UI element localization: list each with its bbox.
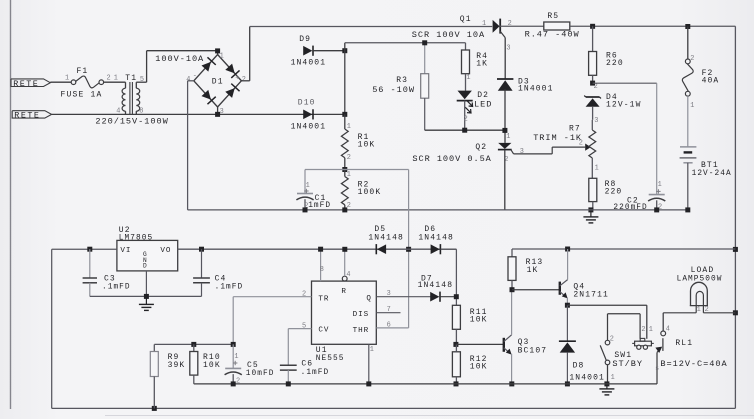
junction D2 bottom bbox=[462, 128, 467, 133]
svg-text:.1mFD: .1mFD bbox=[215, 284, 244, 292]
junction node A bbox=[342, 48, 347, 53]
fuse F2 bbox=[682, 27, 719, 147]
junction R10 top bbox=[191, 342, 196, 347]
svg-text:12V-1W: 12V-1W bbox=[606, 101, 642, 110]
resistor R11 bbox=[452, 305, 487, 344]
svg-text:1: 1 bbox=[370, 346, 374, 354]
wire rail corner down bbox=[441, 249, 457, 305]
junction F2 top bbox=[685, 24, 690, 29]
junction right lamp bbox=[733, 310, 738, 315]
svg-text:10K: 10K bbox=[203, 361, 221, 370]
svg-text:1: 1 bbox=[611, 374, 615, 382]
wire D1-2 riser bbox=[241, 27, 249, 81]
svg-text:2: 2 bbox=[641, 326, 645, 334]
wire R11 to Q3 base bbox=[456, 343, 504, 345]
svg-text:1: 1 bbox=[506, 133, 510, 141]
wire 555 pin4 bbox=[342, 247, 350, 281]
svg-text:RETE: RETE bbox=[14, 111, 40, 121]
svg-text:1mFD: 1mFD bbox=[308, 202, 331, 210]
fuse F1 bbox=[61, 67, 104, 100]
svg-text:4: 4 bbox=[346, 271, 350, 279]
wire gnd row bbox=[90, 295, 202, 297]
junction D7 cathode bbox=[454, 294, 459, 299]
junction C5 bottom bbox=[231, 381, 236, 386]
capacitor C5 bbox=[225, 344, 275, 385]
junction Q2 anode bbox=[502, 128, 507, 133]
svg-text:SCR 100V 10A: SCR 100V 10A bbox=[412, 30, 485, 40]
svg-text:7: 7 bbox=[387, 306, 391, 314]
junction C1 bottom bbox=[303, 207, 308, 212]
resistor R5 bbox=[525, 12, 580, 39]
regulator U2 LM7805 bbox=[117, 226, 178, 271]
junction 555 pin1 bottom bbox=[366, 381, 371, 386]
svg-text:VI: VI bbox=[120, 247, 131, 255]
svg-text:10K: 10K bbox=[470, 363, 488, 372]
svg-text:D10: D10 bbox=[298, 98, 316, 107]
svg-text:3: 3 bbox=[387, 290, 391, 298]
resistor R4 bbox=[462, 43, 489, 91]
svg-text:1K: 1K bbox=[476, 60, 488, 69]
svg-text:CV: CV bbox=[318, 326, 329, 334]
svg-text:2N1711: 2N1711 bbox=[573, 290, 609, 299]
svg-text:1: 1 bbox=[65, 75, 69, 83]
svg-text:2: 2 bbox=[242, 76, 246, 84]
resistor R8 bbox=[589, 178, 623, 210]
svg-text:40A: 40A bbox=[702, 77, 720, 86]
svg-text:C5: C5 bbox=[247, 361, 259, 370]
svg-text:LM7805: LM7805 bbox=[119, 235, 153, 243]
svg-text:C4: C4 bbox=[215, 274, 227, 283]
svg-text:2: 2 bbox=[579, 140, 583, 148]
resistor R6 bbox=[589, 26, 624, 91]
svg-text:1: 1 bbox=[220, 53, 224, 61]
junction Q4 emitter bbox=[565, 303, 570, 308]
svg-text:6: 6 bbox=[387, 321, 391, 329]
svg-text:1: 1 bbox=[697, 306, 701, 314]
capacitor C6 bbox=[280, 360, 329, 384]
svg-text:10mFD: 10mFD bbox=[246, 370, 275, 378]
svg-text:1K: 1K bbox=[527, 266, 539, 275]
svg-text:LOAD: LOAD bbox=[691, 266, 715, 275]
LED D2 bbox=[457, 91, 493, 131]
resistor R10 bbox=[190, 344, 221, 384]
wire 555 pin3 Q bbox=[376, 290, 432, 298]
svg-text:2: 2 bbox=[302, 290, 306, 298]
label 100V-10A bbox=[155, 54, 204, 64]
svg-text:ST/BY: ST/BY bbox=[612, 359, 643, 369]
svg-text:+: + bbox=[235, 74, 239, 82]
junction R2 bottom bbox=[342, 207, 347, 212]
junction R6 bottom bbox=[590, 81, 595, 86]
svg-text:B=12V-C=40A: B=12V-C=40A bbox=[660, 359, 727, 369]
timer U1 NE555 bbox=[312, 281, 377, 363]
svg-text:R5: R5 bbox=[547, 12, 559, 21]
wire node A riser bbox=[345, 43, 466, 51]
svg-text:1N4148: 1N4148 bbox=[368, 234, 404, 243]
svg-text:1: 1 bbox=[347, 171, 351, 179]
svg-text:NE555: NE555 bbox=[316, 355, 345, 363]
svg-text:5: 5 bbox=[302, 322, 306, 330]
svg-text:Q1: Q1 bbox=[460, 15, 472, 24]
svg-text:100K: 100K bbox=[358, 188, 382, 197]
bridge rectifier D1 bbox=[186, 51, 246, 116]
svg-text:BC107: BC107 bbox=[518, 346, 548, 355]
svg-text:RETE: RETE bbox=[13, 79, 39, 89]
svg-text:1N4001: 1N4001 bbox=[291, 122, 327, 131]
svg-text:C3: C3 bbox=[104, 274, 116, 283]
transistor Q3 BC107 bbox=[504, 290, 547, 384]
svg-text:8: 8 bbox=[139, 108, 143, 116]
junction BT1 bottom bbox=[685, 207, 690, 212]
svg-text:5: 5 bbox=[655, 365, 659, 372]
svg-text:-: - bbox=[193, 72, 197, 80]
SCR Q2 bbox=[475, 143, 524, 210]
svg-text:56 -10W: 56 -10W bbox=[372, 85, 415, 95]
svg-text:4: 4 bbox=[186, 76, 190, 84]
label T1 value bbox=[95, 117, 168, 127]
wire VO rail bbox=[178, 248, 457, 250]
wire D1-4 down bbox=[188, 81, 194, 210]
svg-text:220/15V-100W: 220/15V-100W bbox=[95, 117, 168, 127]
svg-text:Q2: Q2 bbox=[475, 143, 487, 152]
svg-text:3: 3 bbox=[506, 44, 510, 52]
svg-text:D1: D1 bbox=[212, 77, 224, 86]
svg-text:1: 1 bbox=[234, 353, 238, 361]
ground below R8 bbox=[583, 210, 598, 223]
junction C4 top bbox=[199, 247, 204, 252]
junction R6 top bbox=[590, 24, 595, 29]
diode D5 bbox=[368, 225, 404, 254]
svg-text:U1: U1 bbox=[316, 346, 328, 355]
junction R9 bottom bbox=[152, 406, 157, 411]
SCR Q1 bbox=[460, 15, 512, 52]
svg-text:TRIM -1K: TRIM -1K bbox=[533, 133, 582, 143]
junction bridge pin3 bbox=[215, 112, 220, 117]
wire VI left bbox=[52, 248, 117, 250]
svg-text:T1: T1 bbox=[125, 74, 137, 83]
junction R8 bottom bbox=[588, 207, 593, 212]
diode D7 bbox=[418, 274, 454, 301]
connector RETE (line) top bbox=[11, 79, 50, 89]
resistor R2 bbox=[341, 170, 381, 211]
junction R12 bottom bbox=[454, 381, 459, 386]
wire 555 pin8 bbox=[318, 247, 324, 281]
resistor R3 bbox=[372, 43, 429, 130]
wire bottom return bbox=[52, 407, 736, 409]
svg-text:1: 1 bbox=[466, 74, 470, 82]
transformer T1 bbox=[116, 74, 146, 115]
wire y50.7 to bridge bbox=[147, 50, 218, 52]
svg-text:R: R bbox=[341, 288, 347, 296]
svg-text:4: 4 bbox=[666, 326, 670, 334]
svg-text:220: 220 bbox=[605, 188, 623, 197]
wire THR riser bbox=[408, 170, 410, 328]
svg-text:1N4148: 1N4148 bbox=[418, 281, 454, 290]
diode D6 bbox=[418, 225, 454, 254]
wire D7 to R11 bbox=[440, 296, 456, 298]
svg-text:R3: R3 bbox=[396, 76, 408, 85]
relay contact RL1 bbox=[655, 313, 727, 384]
wire fuse to T1 bbox=[104, 75, 126, 83]
capacitor C2 bbox=[613, 181, 665, 212]
svg-text:1: 1 bbox=[595, 164, 599, 172]
svg-text:3: 3 bbox=[594, 117, 598, 125]
svg-text:1: 1 bbox=[690, 102, 694, 110]
svg-text:5: 5 bbox=[140, 76, 144, 84]
svg-text:.1mFD: .1mFD bbox=[301, 369, 330, 377]
label Q2 pin1 bbox=[506, 133, 510, 141]
svg-text:THR: THR bbox=[353, 327, 370, 335]
svg-text:1N4001: 1N4001 bbox=[569, 374, 605, 383]
junction SW1 bottom bbox=[604, 381, 609, 386]
wire lamp pin1 bbox=[663, 306, 696, 313]
svg-text:10K: 10K bbox=[358, 140, 376, 149]
border left edge line bbox=[10, 0, 12, 409]
relay coil RL1 bbox=[632, 326, 654, 349]
svg-text:2: 2 bbox=[347, 202, 351, 210]
wire T1-5 riser bbox=[146, 51, 148, 82]
capacitor C4 bbox=[193, 249, 243, 296]
svg-text:100V-10A: 100V-10A bbox=[155, 54, 204, 64]
svg-text:2: 2 bbox=[236, 377, 240, 385]
wire RETE2 rail y114 bbox=[52, 113, 345, 115]
svg-text:1N4001: 1N4001 bbox=[291, 59, 327, 68]
diode D10 bbox=[291, 98, 327, 131]
junction R11 bottom bbox=[453, 342, 458, 347]
wire lamp pin2 bbox=[703, 306, 735, 313]
svg-text:C6: C6 bbox=[301, 360, 313, 369]
wire RETE1 to fuse bbox=[50, 81, 71, 83]
svg-text:1: 1 bbox=[482, 20, 486, 28]
switch SW1 bbox=[600, 335, 643, 384]
wire top rail bbox=[250, 26, 493, 28]
ground below SW1 bbox=[599, 384, 614, 395]
junction Q4 collector bbox=[565, 247, 570, 252]
battery BT1 bbox=[680, 147, 732, 210]
wire Q4e to coil bbox=[567, 305, 646, 339]
label SCR 100V 10A bbox=[412, 30, 485, 40]
wire node A down to R1 bbox=[344, 51, 346, 115]
wire batt+ rail bbox=[512, 248, 735, 250]
resistor R1 bbox=[341, 114, 375, 169]
wire 555 pin2 TR bbox=[233, 290, 311, 344]
svg-text:3: 3 bbox=[220, 108, 224, 116]
transistor Q4 2N1711 bbox=[560, 249, 609, 305]
svg-text:2: 2 bbox=[464, 115, 468, 123]
wire 555 pin5 CV bbox=[288, 322, 311, 365]
svg-text:8: 8 bbox=[320, 266, 324, 274]
diode D8 bbox=[559, 305, 605, 384]
svg-text:2: 2 bbox=[107, 75, 111, 83]
wire D3 to Q2 bbox=[504, 90, 506, 143]
wire R13 to Q4 base bbox=[512, 289, 560, 291]
svg-text:39K: 39K bbox=[168, 361, 186, 370]
junction R13 bottom bbox=[510, 287, 515, 292]
svg-text:2: 2 bbox=[610, 335, 614, 343]
wire 555 pin1 bbox=[369, 344, 374, 384]
diode D3 bbox=[497, 77, 554, 93]
wire Q2 gate bbox=[511, 147, 585, 154]
wire coil pin2 to SW1 bbox=[608, 314, 641, 341]
diode D9 bbox=[291, 35, 327, 68]
capacitor C3 bbox=[83, 249, 131, 296]
svg-text:3: 3 bbox=[520, 148, 524, 156]
junction R1 top bbox=[342, 112, 347, 117]
wire 555 pin6 THR bbox=[376, 321, 408, 329]
lamp LOAD bbox=[677, 266, 723, 314]
trimmer R7 bbox=[533, 117, 599, 179]
junction R3 top bbox=[422, 40, 427, 45]
wire R3/D2 row y130 bbox=[425, 129, 505, 131]
svg-text:Q: Q bbox=[366, 295, 372, 303]
wire Q1 anode gap bbox=[500, 25, 544, 27]
svg-text:D9: D9 bbox=[299, 35, 311, 44]
svg-text:4: 4 bbox=[116, 108, 120, 116]
svg-text:D: D bbox=[143, 263, 147, 270]
resistor R12 bbox=[452, 344, 487, 384]
svg-text:220mFD: 220mFD bbox=[613, 204, 647, 212]
junction C3 top bbox=[87, 247, 92, 252]
svg-text:1N4148: 1N4148 bbox=[418, 234, 454, 243]
label SCR 100V 0.5A bbox=[412, 154, 491, 164]
svg-text:D8: D8 bbox=[573, 361, 585, 370]
svg-text:10K: 10K bbox=[470, 316, 488, 325]
junction R1-R2 bbox=[342, 167, 347, 172]
svg-text:.1mFD: .1mFD bbox=[102, 284, 131, 292]
resistor R13 bbox=[508, 249, 543, 290]
svg-text:VO: VO bbox=[160, 247, 171, 255]
junction C6 bottom bbox=[286, 381, 291, 386]
wire rail y384 bbox=[194, 383, 657, 385]
junction right batt+ bbox=[733, 247, 738, 252]
svg-text:LED: LED bbox=[474, 100, 492, 110]
wire D9 to junction bbox=[313, 50, 345, 52]
zener D4 bbox=[584, 93, 641, 120]
svg-text:U2: U2 bbox=[119, 226, 131, 235]
svg-text:1: 1 bbox=[114, 75, 118, 83]
svg-text:1: 1 bbox=[649, 326, 653, 334]
junction C2 bottom bbox=[654, 207, 659, 212]
junction D8 bottom bbox=[565, 381, 570, 386]
svg-text:SCR 100V 0.5A: SCR 100V 0.5A bbox=[412, 154, 491, 164]
junction Q3 emitter bbox=[509, 381, 514, 386]
resistor R9 bbox=[150, 344, 185, 408]
svg-text:DIS: DIS bbox=[353, 311, 370, 319]
svg-text:1: 1 bbox=[347, 123, 351, 131]
svg-text:TR: TR bbox=[318, 295, 329, 303]
wire left riser bbox=[51, 249, 53, 408]
svg-text:F1: F1 bbox=[77, 67, 89, 76]
svg-text:2: 2 bbox=[690, 55, 694, 63]
wire right vertical bbox=[734, 26, 736, 408]
junction D5-D6 bbox=[406, 247, 411, 252]
svg-text:12V-24A: 12V-24A bbox=[692, 170, 732, 178]
wire Q1 gate down bbox=[504, 38, 506, 79]
capacitor C1 bbox=[296, 170, 331, 211]
wire tr row bbox=[154, 343, 233, 345]
ground below U2 bbox=[139, 296, 154, 310]
wire 555 pin7 DIS bbox=[376, 306, 400, 314]
svg-text:1N4001: 1N4001 bbox=[518, 84, 554, 93]
svg-text:FUSE 1A: FUSE 1A bbox=[61, 91, 103, 100]
wire R6 to C2 bbox=[593, 83, 657, 194]
svg-text:R.47 -40W: R.47 -40W bbox=[525, 30, 580, 40]
junction bridge pin1 bbox=[215, 48, 220, 53]
svg-text:220: 220 bbox=[606, 59, 624, 68]
wire R5 to F2 corner bbox=[570, 25, 736, 27]
junction U2 gnd bbox=[144, 271, 149, 299]
svg-text:1: 1 bbox=[658, 181, 662, 189]
svg-text:RL1: RL1 bbox=[675, 339, 693, 348]
connector RETE (line) bottom bbox=[12, 111, 51, 121]
wire rail y210 bbox=[188, 209, 688, 211]
wire C1 top row bbox=[305, 169, 409, 171]
svg-text:2: 2 bbox=[347, 154, 351, 162]
junction C5 top bbox=[231, 342, 236, 347]
